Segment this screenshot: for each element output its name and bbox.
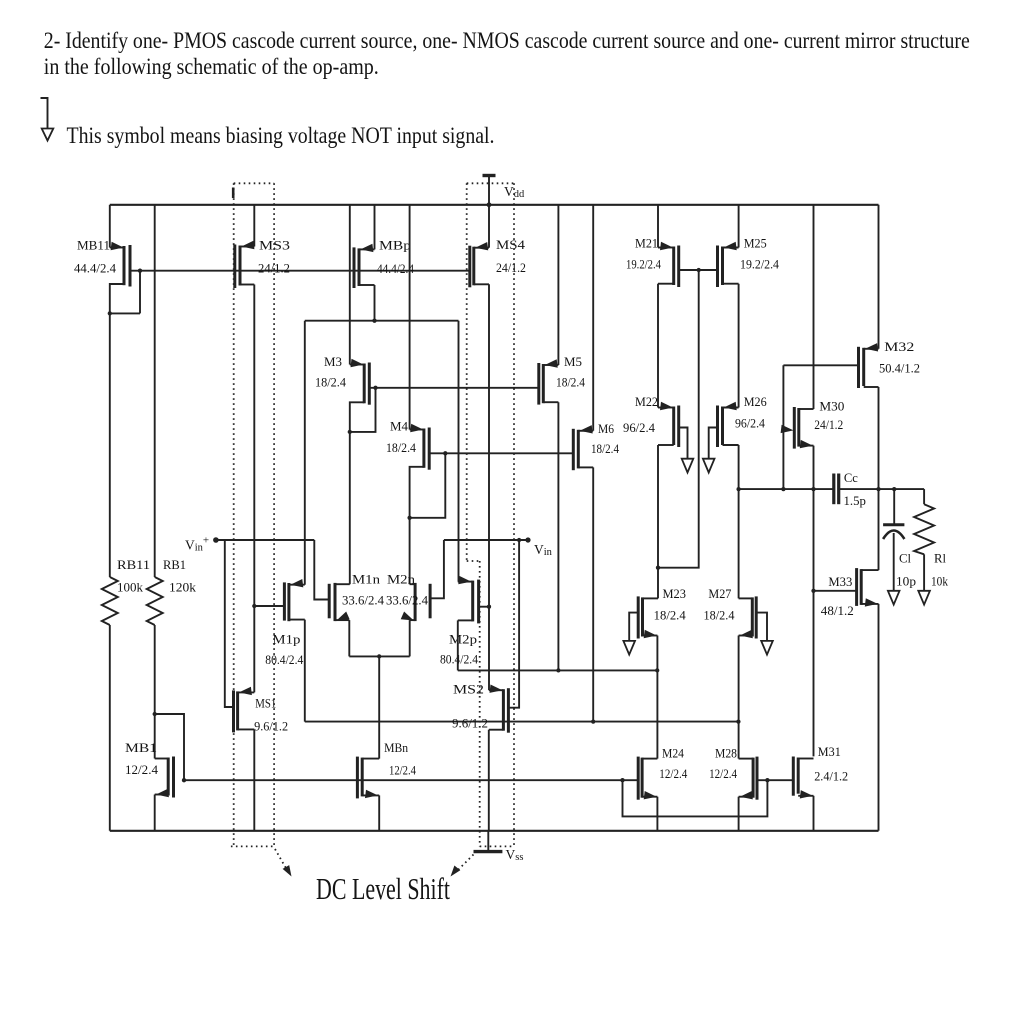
svg-text:M25: M25 — [744, 236, 767, 251]
wire M4 gate line to M6 — [429, 452, 573, 454]
wire tail bar — [349, 655, 409, 657]
svg-text:M3: M3 — [324, 354, 342, 369]
svg-text:RB11: RB11 — [117, 557, 150, 572]
svg-text:M22: M22 — [635, 394, 658, 409]
junction M2p gate tap — [487, 605, 491, 609]
svg-text:MB11: MB11 — [77, 238, 110, 253]
svg-text:M23: M23 — [663, 586, 687, 601]
wire rail corner to M32 source — [878, 205, 880, 349]
dotted box left — [232, 188, 235, 199]
wire M28 gate to M31 gate — [757, 779, 793, 781]
svg-text:1.5p: 1.5p — [844, 494, 866, 508]
svg-text:M30: M30 — [819, 399, 844, 414]
junction at M28 column — [736, 719, 740, 723]
transistor M23 — [643, 597, 659, 599]
junction M4 drain — [407, 516, 411, 520]
wire M2p drain down — [457, 620, 459, 670]
wire Vdd rail to M21 source — [657, 205, 659, 248]
wire M25 drain to M26 source — [738, 284, 740, 408]
svg-text:33.6/2.4: 33.6/2.4 — [342, 594, 384, 608]
wire M26 drain to M27 drain — [738, 445, 740, 598]
svg-text:MS4: MS4 — [496, 237, 526, 252]
wire output line right of Cc — [839, 488, 924, 490]
transistor M2p — [458, 581, 473, 583]
svg-text:2.4/1.2: 2.4/1.2 — [814, 769, 848, 783]
wire M3 drain to M1n drain — [349, 432, 351, 584]
wire MB11 gate bias line — [130, 270, 470, 272]
wire Vin+ line — [216, 539, 314, 541]
capacitor Cc — [832, 474, 835, 505]
wire MB11 drain-gate loop — [110, 312, 140, 314]
svg-text:M32: M32 — [884, 339, 914, 354]
svg-text:Cl: Cl — [899, 552, 911, 566]
bias arrow M23 — [623, 641, 635, 655]
wire long line M1p drain to M28 column — [305, 721, 739, 723]
wire MS1 gate from Vin+ — [225, 540, 234, 707]
junction MB11 gate — [138, 269, 142, 273]
svg-text:18/2.4: 18/2.4 — [556, 376, 585, 390]
svg-text:12/2.4: 12/2.4 — [709, 767, 737, 781]
wire M27 source to M28 drain — [738, 636, 740, 759]
wire Vdd rail to M4 source — [409, 205, 411, 430]
svg-text:2- Identify one- PMOS cascode: 2- Identify one- PMOS cascode current so… — [44, 28, 970, 54]
svg-text:M28: M28 — [715, 746, 737, 761]
wire M26 gate to bias arrow — [709, 428, 718, 459]
wire gate bias line MB1-MBn-M24 — [184, 779, 638, 781]
transistor MS1 — [238, 691, 255, 693]
transistor M4 — [410, 429, 424, 431]
junction M30 source at Cc node — [811, 487, 815, 491]
wire M23 gate to bias arrow — [629, 613, 638, 641]
svg-text:M5: M5 — [564, 354, 582, 369]
wire Vdd rail to MB11 source — [109, 205, 111, 248]
wire M3 gate line to M5 — [369, 387, 539, 389]
dotted box right — [467, 182, 514, 184]
svg-text:M1n: M1n — [352, 572, 381, 587]
Vdd rail — [110, 204, 879, 206]
junction M1p gate tap — [252, 604, 256, 608]
svg-text:9.6/1.2: 9.6/1.2 — [452, 717, 488, 731]
wire M5 drain down — [557, 402, 559, 670]
svg-text:DC Level Shift: DC Level Shift — [316, 872, 450, 906]
svg-text:10p: 10p — [896, 575, 916, 589]
svg-text:12/2.4: 12/2.4 — [659, 767, 687, 781]
svg-text:24/1.2: 24/1.2 — [496, 261, 526, 275]
transistor M26 — [723, 407, 739, 409]
svg-text:M33: M33 — [828, 574, 852, 589]
transistor MS2 — [489, 689, 503, 691]
transistor MBn — [362, 758, 379, 760]
junction M33 gate node — [811, 589, 815, 593]
svg-text:24/1.2: 24/1.2 — [814, 418, 843, 432]
svg-text:MS1: MS1 — [255, 696, 276, 711]
dotted arrow left to DC Level Shift — [275, 849, 287, 870]
svg-text:19.2/2.4: 19.2/2.4 — [626, 258, 661, 272]
svg-text:M31: M31 — [818, 744, 841, 759]
junction M5 drain — [556, 668, 560, 672]
svg-text:18/2.4: 18/2.4 — [654, 608, 686, 622]
transistor MB1 — [155, 758, 169, 760]
wire Cc node line — [739, 488, 834, 490]
Vss symbol — [487, 831, 489, 852]
wire cascode node to M2p source — [458, 321, 460, 582]
transistor M22 — [658, 407, 674, 409]
transistor M1p — [289, 584, 305, 586]
node Vin- — [525, 537, 530, 542]
svg-text:80.4/2.4: 80.4/2.4 — [440, 652, 478, 666]
transistor M24 — [642, 758, 657, 760]
svg-text:18/2.4: 18/2.4 — [591, 442, 619, 456]
svg-text:MBp: MBp — [379, 238, 411, 253]
wire M1p drain down — [304, 620, 306, 722]
transistor MBp — [359, 248, 375, 250]
wire Vdd rail to MS3 source — [253, 205, 255, 247]
transistor M1n — [328, 584, 331, 619]
svg-text:M21: M21 — [635, 236, 658, 251]
transistor M25 — [723, 247, 739, 249]
bias arrow M27 — [761, 641, 773, 655]
svg-text:MS2: MS2 — [453, 682, 484, 697]
svg-text:Vin+: Vin+ — [185, 535, 209, 554]
junction M6 drain — [591, 719, 595, 723]
svg-text:10k: 10k — [931, 575, 949, 589]
svg-text:M6: M6 — [598, 421, 614, 436]
node Vin+ — [213, 537, 219, 543]
junction mirror gate — [697, 268, 701, 272]
wire M1p gate to MS3 line — [254, 605, 284, 607]
svg-text:Vdd: Vdd — [504, 184, 525, 200]
wire Vin- line — [444, 539, 528, 541]
wire M22 drain to M23 drain — [657, 445, 659, 598]
junction M4 gate — [443, 451, 447, 455]
wire Vdd rail to M6 source — [592, 205, 594, 431]
wire M3 gate-drain loop — [350, 388, 376, 432]
svg-text:Vss: Vss — [506, 847, 524, 863]
junction M32 drain at output line — [876, 487, 880, 491]
svg-text:M26: M26 — [744, 394, 767, 409]
wire M33 gate lead — [814, 590, 857, 592]
wire M30 source to M31 drain — [813, 446, 815, 757]
wire M22 gate to bias arrow — [679, 428, 688, 459]
transistor M21 — [658, 247, 674, 249]
wire M23 source to M24 drain — [656, 636, 658, 759]
svg-text:in the following schematic of: in the following schematic of the op-amp… — [44, 54, 379, 80]
wire M2n gate to Vin- — [430, 540, 444, 598]
bias arrow M26 — [703, 459, 715, 473]
Vss rail — [110, 830, 879, 832]
svg-text:MBn: MBn — [384, 740, 408, 755]
wire RB11 to Vss rail — [109, 625, 111, 831]
wire M32 drain to output — [878, 387, 880, 570]
junction M28 gate loop — [765, 778, 769, 782]
svg-text:18/2.4: 18/2.4 — [315, 376, 346, 390]
wire MS3 drain down to MS1 — [253, 285, 255, 693]
svg-text:Rl: Rl — [934, 552, 946, 566]
wire Vdd rail to M3 source — [349, 205, 351, 365]
wire M4 drain to M2n drain — [409, 518, 411, 584]
transistor M5 — [543, 364, 558, 366]
svg-text:Cc: Cc — [844, 471, 858, 485]
wire MS1 source to Vss rail — [253, 729, 255, 830]
junction M32 gate at Cc node — [781, 487, 785, 491]
wire M27 gate to bias arrow — [756, 613, 767, 641]
wire M6 drain down — [592, 467, 594, 721]
resistor RB1 — [147, 577, 163, 625]
junction M3 drain — [348, 430, 352, 434]
junction tail — [377, 654, 381, 658]
svg-text:Vin: Vin — [534, 542, 553, 558]
svg-text:M27: M27 — [708, 586, 731, 601]
wire Vdd rail to M25 source — [738, 205, 740, 248]
svg-text:33.6/2.4: 33.6/2.4 — [386, 594, 428, 608]
junction diode node — [656, 566, 660, 570]
junction M3 gate — [373, 386, 377, 390]
wire mirror gate to diode node — [658, 270, 699, 568]
wire Vdd rail to MBp source — [374, 205, 376, 250]
svg-text:M2n: M2n — [387, 572, 416, 587]
wire M4 gate-drain loop — [410, 453, 446, 518]
wire Vdd rail to RB1 — [154, 205, 156, 577]
junction MB11 drain — [108, 311, 112, 315]
wire MS2 source to Vss — [488, 730, 490, 831]
wire MS2 gate to Vin- — [508, 540, 519, 708]
svg-text:M24: M24 — [662, 746, 684, 761]
wire Vdd rail to M30 drain — [813, 205, 815, 409]
wire tail to MBn drain — [378, 656, 380, 758]
junction MS2 gate tap — [517, 538, 521, 542]
wire cascode node horizontal — [305, 320, 459, 322]
transistor M30 — [799, 408, 814, 410]
wire M21 drain to M22 source — [657, 284, 659, 408]
svg-text:12/2.4: 12/2.4 — [389, 763, 416, 777]
svg-text:18/2.4: 18/2.4 — [704, 608, 735, 622]
transistor MS3 — [240, 246, 254, 248]
transistor M32 — [864, 348, 879, 350]
svg-text:120k: 120k — [169, 581, 197, 595]
junction at M24 column — [655, 668, 659, 672]
svg-text:96/2.4: 96/2.4 — [623, 421, 655, 435]
transistor MS4 — [474, 247, 489, 249]
svg-text:18/2.4: 18/2.4 — [386, 441, 416, 455]
transistor M28 — [739, 758, 754, 760]
wire RB1 tap to MB1 gate — [155, 714, 184, 780]
svg-text:19.2/2.4: 19.2/2.4 — [740, 258, 779, 272]
gate arrow M30 — [781, 425, 794, 433]
svg-text:50.4/1.2: 50.4/1.2 — [879, 362, 920, 376]
svg-text:M2p: M2p — [449, 632, 477, 647]
ground arrow Cl — [888, 591, 900, 605]
transistor M3 — [350, 364, 364, 366]
wire RB1 to MB1 drain — [154, 625, 156, 759]
wire Vdd rail to M5 source — [557, 205, 559, 365]
legend bias-voltage symbol — [41, 98, 48, 129]
wire node line M2p-M5 drains to M24 column — [458, 669, 657, 671]
wire MB11 drain to RB11 — [109, 313, 111, 577]
Vdd symbol — [483, 174, 496, 177]
bias arrow M22 — [682, 459, 694, 473]
wire tail M2n source — [409, 620, 411, 656]
junction M24 gate loop — [620, 778, 624, 782]
svg-text:44.4/2.4: 44.4/2.4 — [74, 262, 116, 276]
svg-text:96/2.4: 96/2.4 — [735, 417, 765, 431]
svg-text:9.6/1.2: 9.6/1.2 — [254, 720, 288, 734]
junction MB1 gate node — [182, 778, 186, 782]
wire M32 gate drop to Cc node — [782, 365, 784, 489]
transistor M6 — [578, 430, 593, 432]
wire M2p gate to MS4 line — [479, 606, 489, 608]
svg-text:RB1: RB1 — [163, 557, 186, 572]
svg-text:MB1: MB1 — [125, 740, 157, 755]
ground arrow Rl — [918, 591, 930, 605]
capacitor Cl branch — [893, 489, 895, 525]
wire tail M1n source — [348, 620, 350, 656]
resistor Rl branch — [923, 489, 925, 504]
wire MBp drain to cascode node — [374, 285, 376, 321]
wire Vin+ to M1n gate — [314, 540, 329, 600]
resistor RB11 — [102, 577, 118, 625]
transistor M31 — [798, 758, 813, 760]
svg-text:48/1.2: 48/1.2 — [821, 604, 854, 618]
svg-text:12/2.4: 12/2.4 — [125, 763, 158, 777]
junction RB1 tap — [153, 712, 157, 716]
transistor M27 — [739, 597, 753, 599]
wire MS4 drain down to MS2 — [488, 284, 490, 690]
transistor M33 — [861, 569, 878, 571]
svg-text:80.4/2.4: 80.4/2.4 — [265, 653, 303, 667]
transistor M2n — [429, 584, 432, 619]
wire cascode node to M1p source — [304, 321, 306, 585]
svg-text:M1p: M1p — [272, 632, 300, 647]
wire M24-M28 gate loop — [623, 780, 768, 816]
wire M21-M25 gate tie — [679, 269, 718, 271]
dotted arrow right to DC Level Shift — [458, 851, 477, 870]
svg-text:100k: 100k — [117, 581, 144, 595]
junction MBp drain — [372, 319, 376, 323]
junction output tap on M26-M27 wire — [736, 487, 740, 491]
junction Cl tap — [892, 487, 896, 491]
svg-text:This symbol means biasing volt: This symbol means biasing voltage NOT in… — [67, 123, 495, 149]
wire M32 gate line — [783, 364, 858, 366]
svg-text:44.4/2.4: 44.4/2.4 — [377, 262, 414, 276]
transistor MB11 — [110, 247, 124, 249]
svg-text:M4: M4 — [390, 419, 408, 434]
